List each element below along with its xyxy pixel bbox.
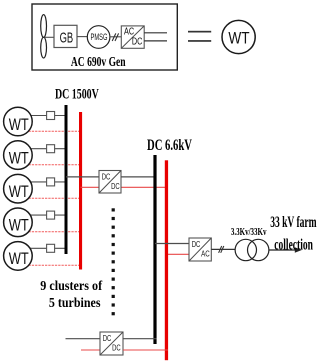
red wire DC/DC2 to main red bus [123,349,168,351]
DC/DC converter U1 [99,171,121,194]
dashed red wire WT5 to red bus [29,264,82,266]
wind turbine WT4 [4,208,33,237]
svg-text:GB: GB [60,30,74,46]
three-phase slash marks on inverter output [219,246,224,253]
wind turbine WT1 [4,107,33,136]
dashed red wire WT1 to red bus [29,130,82,132]
WT symbol circle [222,20,255,53]
wind turbine blade lower [41,37,47,58]
wind turbine WT5 [4,242,33,271]
svg-text:WT: WT [9,115,29,134]
black wire cluster bus to DC/DC1 [66,176,99,178]
wire GB to PMSG [77,36,87,38]
svg-text:collection: collection [274,236,313,253]
generator assembly outer box [32,4,177,70]
svg-text:WT: WT [9,182,29,201]
svg-text:DC: DC [111,181,120,191]
main DC red bus [165,160,168,360]
main DC black bus [153,155,156,344]
cluster DC black bus [65,105,68,254]
black wire DC/DC2 to main bus [123,338,157,340]
wire PMSG to AC/DC converter [109,36,121,38]
shaft wire blades to GB [45,36,55,38]
svg-text:DC 6.6kV: DC 6.6kV [147,137,193,154]
chopper square WT3 [47,178,55,186]
svg-text:3.3Kv/33Kv: 3.3Kv/33Kv [231,226,267,238]
AC/DC converter (machine side) [121,26,144,48]
transformer T1 [235,239,269,260]
svg-text:WT: WT [9,249,29,268]
svg-text:WT: WT [228,28,249,47]
svg-text:AC 690v Gen: AC 690v Gen [71,55,126,70]
wire WT4 to bus [31,214,65,216]
generator PMSG [87,26,110,49]
svg-text:DC: DC [132,37,143,48]
svg-text:33 kV farm: 33 kV farm [270,214,317,231]
equals sign [188,31,211,42]
svg-text:PMSG: PMSG [91,32,108,43]
wire DC/AC to transformer [211,248,235,250]
label 9 clusters of / 5 turbines [40,278,102,310]
red wire cluster red bus to DC/DC1 [81,186,100,188]
svg-text:DC: DC [103,333,112,343]
cluster DC red bus [79,112,82,270]
wind turbine WT2 [4,141,33,170]
svg-text:DC: DC [102,171,111,181]
svg-text:5 turbines: 5 turbines [49,295,101,310]
arrow to farm collection [269,247,302,252]
chopper square WT5 [47,244,55,252]
red stub wire to DC/DC2 [81,349,100,351]
wire WT5 to bus [31,247,65,249]
chopper square WT2 [47,145,55,153]
svg-text:9 clusters of: 9 clusters of [40,278,102,293]
wire WT3 to bus [31,181,65,183]
svg-text:WT: WT [9,216,29,235]
wind turbine blade upper [41,15,47,38]
DC output wire lower [144,40,167,42]
wind turbine WT3 [4,174,33,203]
DC output wire upper [144,32,167,34]
svg-text:DC: DC [192,239,201,249]
red wire main red bus to DC/AC (drawn under buses) [166,253,189,255]
DC/AC inverter U3 [189,238,211,261]
chopper square WT1 [47,112,55,120]
svg-text:DC: DC [112,342,121,352]
DC/DC converter U2 (bottom cluster) [100,332,123,355]
red wire DC/DC1 output to main red bus [121,186,167,188]
svg-text:AC: AC [201,248,210,258]
gearbox GB [54,25,77,47]
black wire main bus to DC/AC [155,243,189,245]
three-phase slash marks on PMSG wire [112,33,118,41]
cluster ellipsis dots [112,208,115,315]
wire WT1 to bus [31,115,65,117]
svg-text:DC 1500V: DC 1500V [55,87,99,103]
dashed red wire WT3 to red bus [29,197,82,199]
dashed red wire WT2 to red bus [29,164,82,166]
svg-text:WT: WT [9,148,29,167]
black stub wire to DC/DC2 [66,338,101,340]
chopper square WT4 [47,211,55,219]
dashed red wire WT4 to red bus [29,231,82,233]
wire WT2 to bus [31,148,65,150]
black wire DC/DC1 to main bus [121,176,157,178]
label 33 kV farm collection [270,214,317,253]
